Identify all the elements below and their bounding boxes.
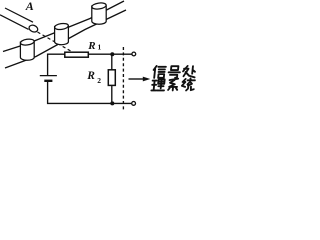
wire: top middle segment R1 to junction and terminal [88, 53, 131, 55]
wire: top-left horizontal segment [48, 54, 65, 75]
can 1 (left cylinder on belt) [20, 38, 34, 60]
light source tube A [0, 8, 39, 33]
conveyor belt near edge [5, 10, 126, 68]
terminal top (open circle) [132, 52, 136, 56]
can 3 (right cylinder on belt) [91, 2, 106, 24]
glyph 系 [168, 79, 178, 91]
glyph 统 [181, 78, 195, 90]
junction top node [110, 52, 114, 56]
output boundary dashed line [122, 47, 124, 110]
terminal bottom (open circle) [132, 102, 136, 106]
glyph 信 [153, 66, 166, 78]
wire: R2 branch vertical [111, 54, 113, 103]
wire: left vertical below battery to bottom wire [48, 82, 132, 104]
battery cell [40, 76, 57, 81]
glyph 处 [182, 66, 195, 77]
conveyor belt far edge [3, 1, 124, 52]
glyph 号 [168, 66, 180, 77]
svg-text:2: 2 [97, 76, 101, 85]
can 2 (middle cylinder on belt) [54, 23, 68, 45]
svg-text:A: A [25, 0, 34, 13]
svg-text:R: R [86, 70, 95, 82]
svg-text:R: R [87, 40, 95, 52]
resistor R2 [108, 70, 115, 86]
light beam (dashed) from tube A to photoresistor R1 [38, 32, 75, 53]
junction bottom node [110, 101, 114, 105]
photoresistor R1 [65, 52, 89, 57]
arrow to signal processing system [129, 77, 151, 82]
svg-text:1: 1 [98, 43, 102, 52]
glyph 理 [151, 79, 165, 90]
label: signal processing system 信号处理系统 (drawn glyphs) [151, 66, 195, 90]
